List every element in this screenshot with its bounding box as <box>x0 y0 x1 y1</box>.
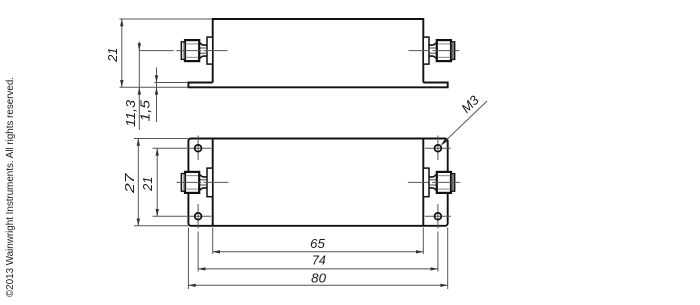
dimension 65 (body length) <box>213 236 424 254</box>
dimension 1,5 <box>137 68 158 123</box>
svg-text:65: 65 <box>310 236 325 251</box>
connector J1 left (plan view) <box>181 168 212 197</box>
mounting hole bottom-left with crosshair <box>153 204 212 272</box>
mounting hole top-left with crosshair <box>153 136 212 161</box>
centerline left (side view) <box>139 50 227 52</box>
flange <box>207 37 213 64</box>
svg-text:21: 21 <box>140 177 155 192</box>
centerline right (plan view) <box>408 181 460 183</box>
enclosure box (side view) <box>213 19 424 83</box>
mounting hole top-right with crosshair <box>425 136 451 161</box>
svg-text:74: 74 <box>312 253 326 268</box>
svg-text:21: 21 <box>105 48 120 63</box>
mounting hole bottom-right with crosshair <box>425 204 451 272</box>
mounting flange plate (plan view) <box>188 139 447 226</box>
dimension 21 (hole spacing vertical) <box>140 148 159 216</box>
dimension 21 (height) <box>105 19 124 87</box>
extension lines 27 dim <box>134 139 188 226</box>
base plate (side view) <box>188 83 447 88</box>
svg-text:©2013 Wainwright Instruments.: ©2013 Wainwright Instruments. All rights… <box>5 77 16 297</box>
dimension 27 (plate depth) <box>122 139 140 226</box>
dimension 80 (plate length) <box>188 270 447 287</box>
svg-text:80: 80 <box>311 270 327 285</box>
coupling nut <box>185 40 199 61</box>
neck <box>199 43 207 45</box>
connector J2 right (plan view) <box>423 168 454 197</box>
dimension 74 (hole spacing horizontal) <box>198 253 438 271</box>
front ring <box>181 42 185 60</box>
svg-text:11,3: 11,3 <box>123 99 138 127</box>
svg-text:1,5: 1,5 <box>137 99 152 121</box>
centerline right (side view) <box>409 50 460 52</box>
connector J1 left (side view) <box>181 37 212 64</box>
dimension 11,3 <box>123 42 141 131</box>
svg-text:27: 27 <box>122 172 137 194</box>
M3 leader and label <box>441 92 488 146</box>
enclosure body edges (plan view) <box>212 139 214 226</box>
extension lines 65/80 dims <box>188 228 447 290</box>
centerline left (plan view) <box>177 181 229 183</box>
connector J2 right (side view) <box>423 37 454 64</box>
extension lines (side view) <box>120 19 212 87</box>
